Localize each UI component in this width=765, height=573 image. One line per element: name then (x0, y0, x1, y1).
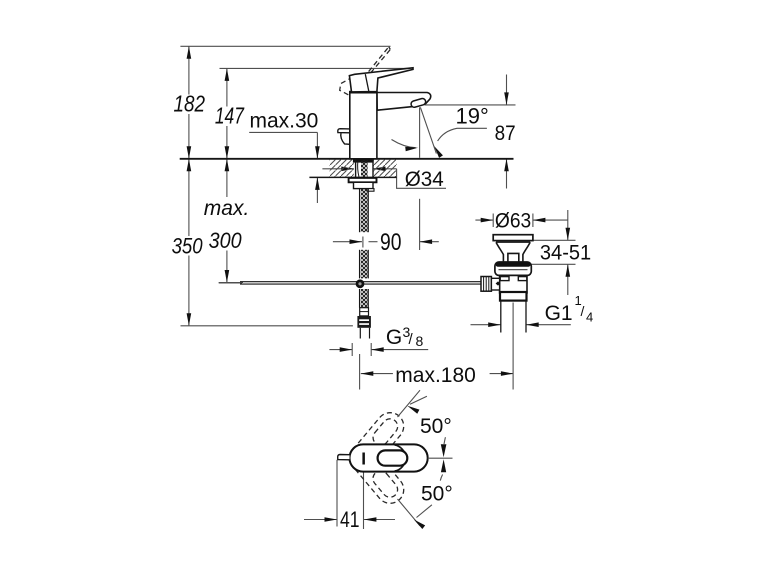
text max. (203, 197, 250, 251)
svg-text:34-51: 34-51 (540, 242, 591, 265)
dimension D34 arrows and bracket (322, 167, 446, 189)
dimension 147 vertical (225, 68, 230, 158)
text max.30 (250, 109, 319, 132)
text 90 (380, 229, 402, 256)
text 350 (170, 234, 205, 259)
svg-text:19°: 19° (456, 104, 489, 129)
svg-text:Ø63: Ø63 (495, 210, 531, 233)
svg-text:90: 90 (380, 229, 402, 256)
faucet spout (377, 93, 431, 111)
svg-text:182: 182 (174, 91, 206, 117)
dimension 350 vertical (181, 159, 353, 326)
text 300 (209, 228, 242, 253)
svg-text:max.180: max.180 (395, 364, 476, 387)
svg-text:50°: 50° (420, 415, 452, 438)
top view left stub (338, 455, 350, 460)
text D63 (495, 210, 531, 233)
dimension max.30 leader and arrows (249, 132, 319, 203)
mounting nut (354, 182, 375, 191)
text G1 1/4 (545, 293, 594, 325)
dimension max.180 (360, 303, 514, 390)
text 182 (172, 91, 208, 117)
dimension 182 reference line top (180, 45, 390, 47)
text 50deg upper (420, 415, 452, 438)
hose end fitting (360, 308, 369, 316)
svg-text:4: 4 (586, 310, 593, 325)
svg-text:41: 41 (340, 507, 360, 532)
flexible hose segment 2 (360, 250, 369, 279)
top view dashed capsule rotated up 50 (344, 407, 409, 477)
text max.180 (395, 364, 476, 387)
text 19deg (456, 104, 489, 129)
dimension 182 vertical (187, 46, 192, 159)
flexible hose segment 3 (360, 289, 369, 308)
top view dashed capsule rotated down 50 (344, 439, 409, 509)
flexible hose segment 1 (360, 189, 369, 232)
svg-text:8: 8 (416, 333, 424, 349)
text 50deg lower (421, 483, 453, 506)
faucet raised lever dashed (340, 47, 391, 102)
washer plate (349, 178, 377, 182)
19 degree stream lines (392, 107, 487, 158)
svg-text:G1: G1 (545, 302, 573, 325)
faucet aerator (410, 98, 426, 108)
svg-text:147: 147 (215, 102, 245, 128)
dimension 90 (333, 199, 439, 250)
dimension G3/8 (329, 343, 428, 356)
counter cross-section (180, 159, 514, 178)
faucet lever (349, 68, 413, 92)
rod pivot joint (356, 279, 365, 288)
svg-text:/: / (581, 303, 585, 319)
text 34-51 (540, 242, 591, 265)
svg-text:max.: max. (204, 197, 250, 220)
dimension 147 reference line (220, 67, 414, 69)
svg-text:max.30: max.30 (250, 109, 319, 132)
top view solid capsule (350, 444, 428, 471)
text 41 (340, 507, 360, 532)
svg-text:Ø34: Ø34 (405, 168, 444, 191)
svg-text:50°: 50° (421, 483, 453, 506)
drain waste assembly (481, 235, 533, 333)
dimension 34-51 (529, 210, 575, 295)
threaded shank in counter (356, 159, 373, 177)
dimension 41 (304, 460, 395, 529)
svg-text:300: 300 (209, 228, 242, 253)
dimension 87 (425, 75, 516, 189)
svg-text:87: 87 (495, 122, 516, 145)
faucet base gasket (353, 159, 374, 162)
text G3/8 (386, 324, 424, 349)
50 degree angle lines (398, 390, 432, 529)
text 87 (495, 122, 516, 145)
svg-text:G: G (386, 326, 402, 349)
dimension max300 vertical (219, 159, 243, 283)
text 147 (213, 102, 247, 128)
G3/8 nut (357, 316, 371, 328)
text D34 (405, 168, 444, 191)
svg-text:350: 350 (172, 234, 203, 259)
pop-up rod knob (338, 129, 350, 145)
dimension G1 1/4 (471, 322, 571, 327)
pop-up rod horizontal (219, 282, 481, 284)
dimension D63 (475, 214, 568, 228)
hose pipe stub (360, 328, 369, 339)
top view horizontal centerline and angle arrows (428, 437, 453, 480)
faucet body column (349, 92, 377, 159)
